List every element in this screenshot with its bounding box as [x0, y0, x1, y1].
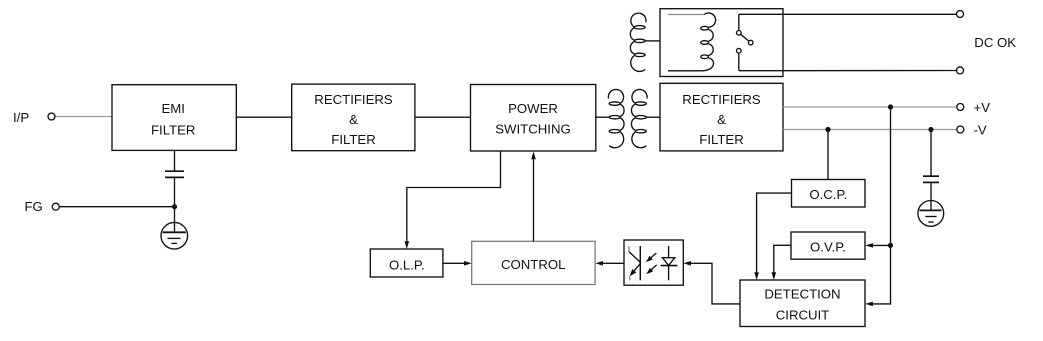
wire -V output	[783, 129, 956, 131]
transformer T1 secondary winding	[631, 89, 647, 147]
svg-text:POWER: POWER	[508, 101, 558, 116]
node +V terminal	[957, 100, 990, 115]
relay box	[660, 9, 783, 77]
relay contact mid	[748, 40, 753, 45]
optocoupler light arrows	[646, 253, 657, 274]
wire +V output	[783, 106, 956, 108]
block O.C.P.	[792, 180, 866, 208]
svg-text:RECTIFIERS: RECTIFIERS	[314, 92, 393, 107]
block RECTIFIERS & FILTER (input)	[292, 84, 415, 151]
wire detection to optocoupler	[690, 263, 741, 304]
svg-text:O.L.P.: O.L.P.	[389, 257, 425, 272]
relay coil	[701, 13, 716, 71]
optocoupler U1 box	[624, 240, 683, 285]
wire OVP to detection	[774, 245, 791, 273]
arrow into OVP right	[865, 243, 873, 248]
svg-text:-V: -V	[974, 122, 987, 137]
svg-text:FILTER: FILTER	[151, 123, 195, 138]
wire I/P to EMI FILTER	[55, 116, 112, 118]
relay contact arm	[741, 34, 749, 41]
wire optocoupler to control	[602, 262, 625, 264]
junction +V sense	[888, 104, 893, 109]
relay coil lead top	[668, 14, 704, 16]
node DC OK - terminal	[957, 67, 964, 74]
relay coil lead bottom	[668, 70, 701, 72]
block EMI FILTER	[112, 85, 236, 151]
node I/P terminal	[13, 110, 55, 125]
relay contact lower lead	[738, 53, 740, 71]
svg-text:FILTER: FILTER	[331, 132, 375, 147]
wire relay to DC OK +	[739, 13, 956, 15]
arrow into detection top (from OCP)	[754, 272, 759, 280]
wire +V sense vertical	[871, 107, 891, 304]
transformer T1 auxiliary winding	[630, 13, 646, 71]
wire capacitor to earth	[930, 182, 932, 200]
wire OCP to detection	[757, 193, 792, 273]
wire power switching to T1 primary	[596, 116, 609, 118]
svg-text:DETECTION: DETECTION	[764, 286, 840, 301]
junction -V to ground cap	[928, 127, 933, 132]
relay contact upper	[737, 31, 742, 36]
arrow into detection right	[865, 302, 873, 307]
wire relay to DC OK -	[739, 70, 956, 72]
svg-text:FG: FG	[25, 199, 43, 214]
wire EMI to Y-capacitor	[174, 150, 176, 170]
wire capacitor to earth	[174, 177, 176, 222]
junction FG node	[172, 204, 177, 209]
wire power switching to OLP	[407, 151, 501, 243]
arrow into optocoupler right	[683, 261, 691, 266]
arrow into control left	[464, 261, 472, 266]
svg-text:&: &	[717, 112, 726, 127]
capacitor C out	[923, 176, 939, 182]
relay contact upper lead	[738, 15, 740, 31]
earth ground left	[161, 222, 188, 249]
capacitor C1 (Y-cap)	[165, 171, 184, 177]
junction OVP branch	[888, 243, 893, 248]
node FG terminal	[25, 199, 60, 214]
svg-text:O.V.P.: O.V.P.	[810, 239, 846, 254]
arrow into control right	[595, 261, 603, 266]
block POWER SWITCHING	[471, 85, 596, 152]
block O.V.P.	[791, 232, 865, 259]
svg-text:CIRCUIT: CIRCUIT	[776, 308, 829, 323]
optocoupler phototransistor	[629, 246, 640, 280]
svg-text:DC OK: DC OK	[974, 35, 1016, 50]
node DC OK + terminal	[957, 11, 964, 18]
svg-text:&: &	[349, 112, 358, 127]
svg-text:RECTIFIERS: RECTIFIERS	[682, 92, 761, 107]
svg-text:O.C.P.: O.C.P.	[809, 187, 847, 202]
svg-text:+V: +V	[974, 100, 991, 115]
optocoupler LED	[661, 246, 678, 280]
wire T1 secondary to output rectifiers	[646, 116, 660, 118]
node -V terminal	[957, 122, 987, 137]
arrow into detection top (from OVP)	[772, 272, 777, 280]
wire control to power switching	[533, 159, 535, 241]
wire FG to junction	[60, 206, 175, 208]
transformer T1 primary winding	[608, 89, 624, 147]
svg-text:SWITCHING: SWITCHING	[495, 121, 570, 136]
arrow into OLP top	[405, 241, 410, 249]
block DETECTION CIRCUIT	[740, 280, 865, 327]
wire -V to OCP top	[827, 130, 829, 180]
wire rectifiers to power switching	[415, 116, 471, 118]
svg-text:FILTER: FILTER	[699, 132, 743, 147]
arrow into power switching bottom	[531, 152, 536, 160]
block RECTIFIERS & FILTER (output)	[660, 83, 783, 151]
earth ground right	[918, 201, 944, 227]
block O.L.P.	[370, 249, 443, 277]
relay contact lower	[737, 48, 742, 53]
wire OVP branch	[871, 244, 891, 246]
wire aux winding to relay box	[645, 40, 660, 42]
svg-text:EMI: EMI	[161, 101, 184, 116]
svg-text:I/P: I/P	[13, 110, 29, 125]
svg-text:CONTROL: CONTROL	[501, 257, 565, 272]
wire EMI FILTER to rectifiers	[236, 116, 291, 118]
wire -V to capacitor	[930, 130, 932, 176]
wire OLP to control	[443, 262, 466, 264]
junction -V to OCP	[825, 127, 830, 132]
block CONTROL	[472, 241, 595, 284]
